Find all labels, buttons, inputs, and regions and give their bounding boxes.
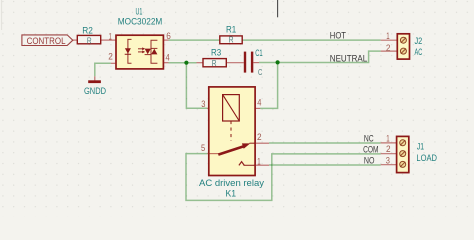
svg-text:C: C	[258, 67, 262, 77]
resistor R3	[203, 48, 226, 69]
svg-text:J2: J2	[415, 36, 423, 46]
resistor R1	[220, 24, 242, 44]
svg-text:AC: AC	[415, 47, 423, 57]
capacitor C1	[244, 48, 263, 77]
wire CONTROL to R2	[73, 39, 78, 41]
svg-text:3: 3	[201, 99, 205, 109]
light arrows	[138, 48, 142, 50]
wire U1 pin2 to GNDD	[95, 63, 111, 76]
hierarchical label CONTROL	[22, 35, 73, 47]
pin5 line to pivot	[209, 153, 219, 155]
svg-text:GNDD: GNDD	[84, 86, 106, 96]
svg-text:R: R	[212, 58, 217, 68]
relay pin5 stub	[208, 153, 210, 155]
J1 pin1 stub	[381, 142, 397, 144]
svg-text:U1: U1	[136, 7, 143, 17]
junction node pin4 riser / NEUTRAL	[276, 60, 280, 64]
svg-text:NC: NC	[364, 134, 374, 145]
svg-text:5: 5	[201, 143, 205, 153]
svg-text:C1: C1	[255, 48, 262, 58]
svg-text:AC driven relay: AC driven relay	[199, 178, 265, 188]
relay pin4 stub	[255, 107, 260, 109]
svg-text:2: 2	[386, 144, 391, 154]
svg-text:NO: NO	[364, 156, 375, 167]
svg-text:R1: R1	[226, 24, 236, 34]
svg-text:1: 1	[109, 32, 112, 42]
svg-text:LOAD: LOAD	[416, 153, 437, 163]
U1 pin4 stub	[163, 62, 168, 64]
connector J1	[397, 136, 409, 172]
svg-text:CONTROL: CONTROL	[27, 36, 66, 47]
switch arm	[218, 146, 243, 154]
svg-text:K1: K1	[226, 188, 237, 198]
svg-text:R: R	[229, 35, 234, 45]
svg-text:4: 4	[166, 52, 170, 62]
connector J2	[397, 34, 409, 59]
U1 pin2 stub	[111, 62, 117, 64]
wire R2 to U1 pin1	[101, 39, 117, 41]
triac triangles	[145, 49, 151, 55]
LED cathode bar	[125, 53, 131, 55]
svg-text:COM: COM	[363, 144, 378, 155]
svg-text:3: 3	[386, 155, 390, 165]
wire NEUTRAL net	[259, 51, 381, 62]
relay pin2 stub	[254, 142, 269, 144]
J2 pin2 stub	[381, 50, 398, 52]
ground GNDD	[84, 76, 106, 96]
wire (vertical, cut off at top edge)	[277, 0, 279, 17]
wire NO contact to J1 pin1	[269, 142, 381, 144]
wire HOT net	[169, 39, 381, 41]
svg-text:MOC3022M: MOC3022M	[118, 17, 163, 27]
svg-text:R2: R2	[82, 24, 93, 35]
J2 pin1 stub	[381, 39, 398, 41]
wire junction to relay coil pin3	[186, 63, 207, 109]
svg-text:1: 1	[386, 31, 389, 41]
svg-text:HOT: HOT	[330, 30, 346, 41]
svg-text:4: 4	[257, 98, 261, 108]
optocoupler U1 reference and value labels	[118, 7, 163, 27]
wire R3 to C1	[226, 62, 244, 64]
wire NC contact to J1 pin3	[269, 164, 381, 166]
svg-text:2: 2	[257, 132, 262, 142]
relay pin1 stub	[254, 164, 269, 166]
LED bracket	[128, 39, 132, 63]
R3 left stub	[197, 62, 204, 64]
svg-text:NEUTRAL: NEUTRAL	[330, 53, 368, 64]
relay K1 body	[209, 87, 255, 176]
optocoupler U1 MOC3022M body	[116, 35, 163, 69]
resistor R2	[77, 24, 100, 45]
coil box	[223, 95, 240, 121]
svg-text:2: 2	[108, 52, 113, 62]
svg-text:2: 2	[386, 43, 391, 53]
U1 pin6 stub	[163, 39, 168, 41]
NC contact bump	[239, 162, 244, 166]
NC contact line	[244, 164, 255, 166]
svg-text:J1: J1	[417, 142, 424, 152]
svg-text:1: 1	[386, 133, 389, 143]
J1 pin3 stub	[381, 164, 397, 166]
LED triangle	[125, 48, 131, 53]
wire U1 pin4 to junction and R3	[169, 62, 197, 64]
wire COM loop under relay to J1 pin2	[186, 154, 381, 201]
NO contact line	[250, 142, 255, 144]
coil diagonal	[223, 95, 240, 121]
junction node R3/C1/coil	[184, 61, 188, 65]
svg-text:R: R	[87, 35, 92, 45]
dashed actuator line	[230, 121, 232, 141]
C1 right stub	[253, 62, 259, 64]
wire relay pin4 riser to NEUTRAL	[260, 62, 277, 108]
J1 pin2 stub	[381, 153, 397, 155]
triac bracket	[151, 40, 157, 63]
relay pin3 stub	[207, 107, 209, 109]
svg-text:R3: R3	[211, 48, 221, 58]
